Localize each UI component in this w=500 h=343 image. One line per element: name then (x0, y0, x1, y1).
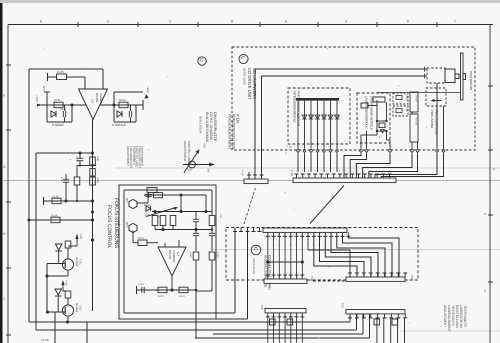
junction (179, 210, 182, 213)
svg-text:TDA8808T: TDA8808T (172, 250, 175, 263)
wire: net y153 (36, 152, 93, 154)
wire P2A to P4B x268 (267, 236, 269, 277)
resistor R136 (74, 177, 80, 185)
junction on output rail (91, 210, 94, 213)
chip box (379, 123, 385, 128)
motor connector pins (422, 67, 427, 72)
wire net y290 (137, 289, 196, 291)
pin P4A 2 (355, 273, 359, 277)
pin P31 2 (355, 314, 359, 318)
svg-text:D: D (107, 20, 110, 24)
wire staircase 417.5 to P2B pin (369, 154, 418, 179)
diode D130 (146, 206, 151, 212)
svg-text:C: C (169, 20, 172, 24)
svg-text:C131: C131 (60, 108, 67, 111)
pin P31 1 (348, 314, 352, 318)
disc motor dashed box (427, 68, 445, 83)
pin P4A 4 (369, 273, 373, 277)
svg-text:10A: 10A (219, 214, 222, 218)
wire P2A to P4B x302 (301, 236, 303, 277)
terminal of R130 (47, 73, 49, 81)
svg-text:C: C (252, 247, 258, 251)
svg-text:FOCUSSING: FOCUSSING (430, 110, 434, 129)
svg-text:C137: C137 (75, 156, 78, 163)
wire photodiode column x324 (323, 101, 325, 148)
pin P4A 7 (389, 273, 393, 277)
svg-text:7: 7 (333, 170, 335, 173)
junction (153, 210, 156, 213)
pin P2A 5 (289, 232, 293, 236)
svg-text:+10V: +10V (35, 95, 39, 102)
pin P2A 7 (300, 232, 304, 236)
wire focus out 2 riser (247, 230, 249, 319)
border zone ticks left (6, 64, 11, 66)
svg-text:3: 3 (364, 170, 366, 173)
resistor R130 (57, 74, 67, 80)
pin P2B 16 (388, 174, 392, 178)
pin P1B x324 (323, 150, 326, 153)
wire photodiode column x298 (297, 101, 299, 148)
scan fold line B (2, 180, 500, 182)
wire (376, 100, 378, 135)
dashed link P4B-P4A (313, 280, 346, 282)
capacitor C125 (141, 287, 143, 293)
svg-text:8: 8 (339, 170, 341, 173)
terminal plate (136, 286, 138, 294)
board symbol circle D (198, 57, 206, 65)
pin P1B x330.5 (329, 150, 332, 153)
wire staircase 361 to P2B pin (344, 154, 361, 179)
scan edge grey strip top (0, 0, 500, 3)
pin P32 (277, 313, 281, 317)
wire staircase P2A 325.3 to P4A (325, 236, 371, 277)
CD LAUFWERK unit dashed outline (232, 47, 475, 150)
pin P31 8 (396, 314, 400, 318)
pin P31 4 (369, 314, 373, 318)
pin P2A 6 (295, 232, 299, 236)
pin P1B x298 (297, 150, 300, 153)
FOKUS-STEUERUNG inner rail top (124, 189, 212, 191)
pin P2B 14 (375, 174, 379, 178)
pin P2A 12 (329, 232, 333, 236)
svg-text:1/2: 1/2 (91, 99, 95, 103)
wire net y211.5 (152, 211, 212, 213)
pin P4A 1 (348, 273, 352, 277)
pin P31 3 (362, 314, 366, 318)
FOKUS-STEUERUNG block outer box (119, 185, 216, 319)
svg-text:P 1B: P 1B (287, 146, 293, 149)
wire MP4 to node (137, 202, 148, 204)
wire chassis return (377, 92, 461, 94)
photocopy speckles (167, 76, 168, 77)
wire net y195 (144, 194, 206, 196)
pin P2A aux (239, 228, 243, 232)
wire staircase 412 to P2B pin (363, 154, 412, 179)
wire: T132 emitter to bus (67, 316, 69, 322)
svg-text:59403-060.84: 59403-060.84 (199, 116, 203, 134)
svg-text:T132: T132 (79, 305, 82, 311)
svg-text:1: 1 (296, 170, 298, 173)
pin P2A 8 (306, 232, 310, 236)
wire R130 to op-amp pin 1 (67, 76, 86, 78)
scan edge black bar left (0, 0, 3, 343)
junction (91, 151, 94, 154)
pin P2A 3 (277, 232, 281, 236)
junction (204, 210, 207, 213)
wire photodiode column x317.5 (317, 101, 319, 148)
wire op-amp inverting input (164, 243, 166, 247)
junction (170, 288, 173, 291)
pin P32 (300, 313, 304, 317)
pin P1B x390 (389, 150, 392, 153)
wire: op-amp output net right (100, 104, 144, 106)
wire x181 (180, 195, 182, 212)
wire P32 down x274 (273, 317, 275, 343)
svg-text:LASERSTROM: LASERSTROM (459, 305, 463, 328)
pin P4B (283, 275, 287, 279)
junction (27, 218, 30, 221)
svg-text:59703-19.00: 59703-19.00 (242, 68, 246, 85)
connector bar P2B (293, 178, 396, 183)
pin P2B 11 (357, 174, 361, 178)
capacitor C137 (77, 157, 83, 159)
coil element (396, 96, 402, 100)
wire bus bottom 4 (195, 337, 370, 339)
FOKUSSIERUNG actuator dashed box (426, 88, 446, 106)
resistor R121 (138, 240, 147, 246)
pin P2B 4 (313, 174, 317, 178)
second compensation box (113, 92, 115, 122)
focus coil body (410, 114, 418, 142)
svg-text:2: 2 (358, 170, 360, 173)
svg-text:ADJUSTMENT: ADJUSTMENT (443, 305, 447, 327)
svg-text:FOCUS CONTROL: FOCUS CONTROL (106, 205, 112, 249)
drawing border frame (8, 24, 493, 26)
junction on output rail (91, 238, 94, 241)
svg-text:CD101: CD101 (95, 93, 99, 103)
junction (78, 151, 81, 154)
pin P32 (283, 313, 287, 317)
wire op-amp pin (178, 240, 180, 247)
pin P4A 6 (383, 273, 387, 277)
unit symbol circle L (239, 54, 248, 63)
connector bar P2A (263, 228, 347, 232)
junction (161, 228, 164, 231)
motor body (445, 69, 455, 83)
wire: op-amp U1 output down long rail (92, 120, 94, 312)
pin P2A aux (258, 228, 262, 232)
ferrite beads on P31 wires (374, 319, 380, 325)
op-amp U2 CD101 TDA8808T 1/2 (158, 247, 186, 276)
pin P1B x337 (336, 150, 339, 153)
svg-text:LASERCURRENT: LASERCURRENT (447, 305, 451, 332)
pin P1B x417.5 (416, 150, 419, 153)
wire: T132 base (47, 311, 65, 313)
diode D134 (55, 289, 62, 295)
connector bar P31 (346, 310, 405, 314)
wire staircase 437 to P2B pin (375, 154, 437, 179)
wire: net y220 (29, 219, 93, 221)
svg-text:C126: C126 (216, 252, 219, 258)
resistor R140 (65, 241, 71, 248)
wire focus out 1 riser (234, 230, 236, 313)
connector bar P4A (346, 277, 405, 281)
+10V arrow supply T131 (76, 239, 78, 246)
pin P2A 4 (283, 232, 287, 236)
svg-text:MP3: MP3 (125, 222, 128, 228)
photodiode common bar (296, 98, 339, 101)
pin P4B (266, 275, 270, 279)
terminal +10V arrow block2 (142, 100, 144, 110)
border zone ticks right (488, 85, 493, 87)
svg-text:5: 5 (320, 170, 322, 173)
wire motor feed 1 (255, 68, 427, 70)
pin P2A aux (233, 228, 237, 232)
svg-text:J: J (3, 297, 5, 301)
svg-text:R139: R139 (51, 214, 58, 217)
wire photodiode column x304.5 (304, 101, 306, 148)
pin P1B x443.5 (442, 150, 445, 153)
wire link bar with junctions (268, 261, 303, 263)
pin P4A 5 (376, 273, 380, 277)
pin P2B 10 (350, 174, 354, 178)
svg-text:D: D (199, 58, 204, 62)
wire P32 down x302 (301, 317, 303, 343)
potentiometer R120 (189, 161, 196, 168)
pin P2B 1 (295, 174, 299, 178)
pin P2A 14 (341, 232, 345, 236)
svg-text:+10V: +10V (79, 233, 82, 239)
wire to edge (86, 322, 88, 343)
coil element (396, 109, 402, 113)
capacitor C131 (62, 111, 64, 117)
svg-text:59403-064.84: 59403-064.84 (252, 258, 255, 275)
svg-text:SPUR: SPUR (405, 95, 408, 101)
pin P2B 13 (369, 174, 373, 178)
svg-text:+10V: +10V (65, 280, 68, 286)
svg-text:R124: R124 (179, 295, 185, 298)
resistor R125 (158, 287, 167, 293)
svg-text:3: 3 (308, 170, 310, 173)
pin P1B x412 (411, 150, 414, 153)
pin P4B (300, 275, 304, 279)
capacitor C124 (193, 218, 199, 220)
svg-text:4: 4 (484, 212, 486, 216)
svg-text:C125: C125 (138, 283, 144, 286)
wire: net y165.5 (77, 165, 96, 167)
pin P2A 2 (272, 232, 276, 236)
connector bar P3B (244, 179, 268, 184)
wire P32 down x268 (267, 317, 269, 343)
wire (377, 130, 387, 132)
wire: feedback drop to op-amp pin 8 (102, 69, 104, 89)
svg-text:FOKUS: FOKUS (415, 117, 418, 125)
wire P32 down x285 (284, 317, 286, 343)
pin P2A 15 (346, 232, 350, 236)
junction (194, 228, 197, 231)
svg-text:4.7u: 4.7u (60, 177, 63, 182)
pin P32 (295, 313, 299, 317)
op-amp U1 CD101 TDA8808T 1/2 (79, 89, 108, 120)
junction (46, 310, 49, 313)
svg-text:-5V: -5V (207, 168, 211, 172)
resistor R131 (54, 102, 63, 108)
svg-text:FOC: FOC (405, 108, 408, 113)
resistor R126 (154, 193, 163, 198)
pin P2B 12 (363, 174, 367, 178)
svg-text:a: a (493, 167, 495, 171)
diode D131 (51, 111, 56, 117)
svg-text:9: 9 (345, 170, 347, 173)
terminal plate (43, 197, 45, 205)
svg-text:TESTPUNKTE: TESTPUNKTE (140, 146, 144, 166)
wire photodiode column x311 (310, 101, 312, 148)
wire: left rail (46, 264, 48, 313)
board symbol circle C (251, 245, 261, 255)
capacitor C134 (63, 179, 69, 181)
wires P31 right pins down (376, 318, 378, 343)
wire staircase P2A 313.8 to P4A (314, 236, 357, 277)
svg-text:9: 9 (345, 20, 347, 24)
pin P31 6 (383, 314, 387, 318)
wire P2A to P4B x279 (278, 236, 280, 277)
diode D133 (56, 244, 63, 250)
wire staircase 443.5 to P2B pin (381, 154, 443, 179)
photodiode symbols D1-D6 (302, 115, 307, 119)
wire: x196 down (195, 260, 197, 290)
focus coil dashed box (393, 106, 408, 116)
pin P2B 3 (307, 174, 311, 178)
junction (70, 103, 73, 106)
disc platter bar (461, 53, 464, 100)
junction node at block 2 (112, 103, 115, 106)
svg-text:+5V: +5V (203, 143, 207, 148)
ANSCHLUSSPLATTE dashed box (226, 228, 418, 281)
svg-text:6: 6 (327, 170, 329, 173)
svg-text:5.6K: 5.6K (96, 156, 99, 161)
riser to P31 pin 1 (349, 314, 351, 322)
capacitor C121 (193, 232, 199, 234)
wire: left rail x36 (35, 153, 37, 330)
connector bar P4B (264, 279, 307, 283)
transistor T132 BC548B (62, 305, 73, 316)
svg-text:ADJUSTMENT: ADJUSTMENT (183, 141, 187, 162)
scan fold line C (213, 249, 500, 251)
wire staircase P2A 348.3 to P4A (348, 236, 399, 277)
pin P4B (295, 275, 299, 279)
junction (179, 193, 182, 196)
resistor R141 (65, 291, 71, 298)
resistor R134 on rail (90, 169, 95, 177)
svg-text:FOCUS ADJUSTMENT: FOCUS ADJUSTMENT (228, 114, 232, 149)
resistor R122 (209, 216, 215, 226)
FOTODIODEN module dashed box (288, 88, 350, 144)
junction (64, 199, 67, 202)
pin P2B 9 (344, 174, 348, 178)
svg-text:E: E (40, 20, 43, 24)
svg-text:R138: R138 (52, 195, 59, 198)
resistor R123 (160, 216, 166, 226)
wire bus bottom 2 (36, 329, 357, 331)
svg-text:MP4: MP4 (125, 198, 128, 204)
svg-text:FOKUSSIERUNG: FOKUSSIERUNG (435, 110, 439, 135)
svg-text:CD DRIVE UNIT: CD DRIVE UNIT (247, 68, 252, 100)
wire bus bottom 3 (213, 333, 363, 335)
svg-text:4.7: 4.7 (379, 136, 383, 139)
svg-text:0 022uF: 0 022uF (52, 123, 64, 127)
wire: op-amp input net (41, 104, 86, 106)
pin P31 5 (376, 314, 380, 318)
transistor T131 BC548B (62, 259, 73, 270)
svg-text:BC548B: BC548B (75, 303, 78, 313)
svg-text:MP1: MP1 (42, 86, 45, 92)
svg-text:SPUR: SPUR (415, 95, 418, 102)
resistor R135 (90, 177, 96, 185)
pin P32 (272, 313, 276, 317)
pin P31 7 (389, 314, 393, 318)
pin P32 (266, 313, 270, 317)
svg-text:5: 5 (484, 289, 486, 293)
pin P2B 2 (301, 174, 305, 178)
wire P32 down x297 (296, 317, 298, 343)
svg-text:R121: R121 (138, 237, 145, 240)
monitor diode (381, 130, 385, 134)
wire (386, 102, 388, 121)
wire P2A to P4B x274 (273, 236, 275, 277)
wire: base net T131 (47, 263, 65, 265)
wire staircase 366.5 to P2B pin (350, 154, 366, 179)
svg-text:G: G (3, 165, 6, 169)
svg-text:2: 2 (302, 170, 304, 173)
wire staircase 390 to P2B pin (356, 154, 390, 179)
pin P2A aux (246, 228, 250, 232)
resistor R124 (179, 287, 188, 293)
capacitor C120 (148, 192, 150, 198)
wire pot to -5V (183, 164, 210, 166)
wire motor to pin row (436, 83, 438, 148)
svg-text:7: 7 (454, 20, 456, 24)
pin P3B (253, 175, 257, 179)
svg-text:8: 8 (407, 20, 409, 24)
wire staircase P2A 342.5 to P4A (343, 236, 393, 277)
svg-text:15.32: 15.32 (41, 338, 49, 342)
pin P1B x311 (310, 150, 313, 153)
pin P4B (277, 275, 281, 279)
tracking coil body (410, 92, 418, 112)
disc hub (463, 74, 466, 80)
svg-text:LASERDIODENMODUL: LASERDIODENMODUL (365, 96, 369, 129)
svg-text:+10V: +10V (146, 86, 150, 93)
svg-text:TDA8808T: TDA8808T (99, 93, 102, 106)
junction (66, 320, 69, 323)
pin P4B (272, 275, 276, 279)
pin P4A 9 (403, 273, 407, 277)
+10V arrow supply T132 (62, 285, 64, 291)
pin P32 (289, 313, 293, 317)
pin P2B 5 (319, 174, 323, 178)
svg-text:R130: R130 (57, 70, 64, 74)
resistor on box top edge (147, 188, 157, 193)
pin P2A 10 (318, 232, 322, 236)
pin P1B x317.5 (316, 150, 319, 153)
pin P2A 9 (312, 232, 316, 236)
actuator arrow (433, 100, 442, 102)
FOKUS-STEUERUNG inner rail left (123, 190, 125, 313)
wire staircase P2A 319.5 to P4A (320, 236, 365, 277)
pin P2A 11 (323, 232, 327, 236)
svg-text:H: H (3, 232, 6, 236)
wire: left circuit outer rail top (29, 68, 103, 70)
